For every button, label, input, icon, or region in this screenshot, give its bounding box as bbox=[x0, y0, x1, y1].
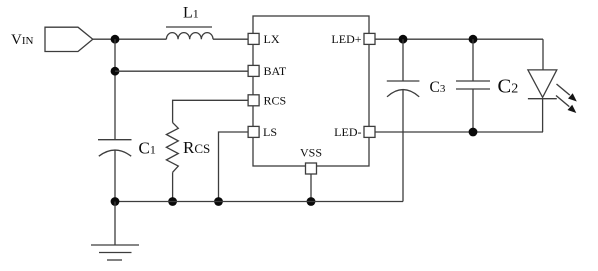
label C2 bbox=[498, 76, 519, 98]
svg-text:LX: LX bbox=[264, 32, 280, 46]
svg-text:LED+: LED+ bbox=[331, 32, 361, 46]
node VIN junction bbox=[111, 35, 120, 44]
pin LED+ bbox=[364, 33, 375, 44]
pin BAT bbox=[248, 65, 259, 76]
label C1 bbox=[139, 139, 156, 158]
node C2 top junction bbox=[469, 35, 478, 44]
resistor RCS bbox=[166, 123, 178, 173]
pin VSS bbox=[306, 163, 317, 174]
wire left vertical (VIN node down to C1) bbox=[114, 39, 116, 140]
svg-text:BAT: BAT bbox=[264, 64, 287, 78]
svg-text:L1: L1 bbox=[183, 5, 199, 22]
node C2 bottom junction bbox=[469, 128, 478, 137]
wire LED+ rail bbox=[375, 38, 544, 40]
pin LED- bbox=[364, 126, 375, 137]
svg-text:RCS: RCS bbox=[183, 138, 210, 157]
pin LS bbox=[248, 126, 259, 137]
svg-text:RCS: RCS bbox=[264, 94, 287, 108]
capacitor C3 bbox=[387, 39, 420, 201]
IC U1 bbox=[253, 16, 369, 166]
label RCS bbox=[183, 138, 210, 157]
svg-text:C1: C1 bbox=[139, 139, 156, 158]
node resistor-rail junction bbox=[168, 197, 177, 206]
node VSS-rail junction bbox=[307, 197, 316, 206]
wire VIN to inductor bbox=[93, 38, 167, 40]
connector VIN bbox=[45, 27, 93, 51]
net label VIN bbox=[11, 32, 34, 48]
node LS-rail junction bbox=[214, 197, 223, 206]
node ground junction bbox=[111, 197, 120, 206]
svg-text:LED-: LED- bbox=[334, 125, 361, 139]
node C3 top junction bbox=[399, 35, 408, 44]
label C3 bbox=[430, 79, 446, 96]
node BAT junction bbox=[111, 67, 120, 76]
wire LS pin to ground rail bbox=[219, 132, 248, 202]
wire inductor to LX bbox=[213, 38, 248, 40]
wire resistor to ground rail bbox=[172, 172, 174, 201]
wire ground rail bbox=[115, 201, 403, 203]
label L1 bbox=[183, 5, 199, 22]
inductor L1 bbox=[166, 27, 213, 39]
LED D1 bbox=[528, 39, 557, 132]
ground bbox=[91, 202, 139, 261]
wire BAT bbox=[115, 70, 248, 72]
capacitor C2 bbox=[456, 39, 490, 132]
svg-text:VSS: VSS bbox=[300, 145, 322, 159]
svg-text:VIN: VIN bbox=[11, 32, 34, 48]
svg-text:C3: C3 bbox=[430, 79, 446, 96]
LED arrow 2 bbox=[556, 96, 576, 114]
wire RCS pin to resistor bbox=[173, 100, 248, 122]
pin RCS bbox=[248, 95, 259, 106]
pin LX bbox=[248, 33, 259, 44]
capacitor C1 bbox=[98, 140, 132, 202]
svg-text:C2: C2 bbox=[498, 76, 519, 98]
LED arrow 1 bbox=[557, 84, 577, 102]
svg-text:LS: LS bbox=[263, 125, 277, 139]
wire LED- rail bbox=[375, 131, 544, 133]
wire VSS to ground rail bbox=[310, 174, 312, 202]
